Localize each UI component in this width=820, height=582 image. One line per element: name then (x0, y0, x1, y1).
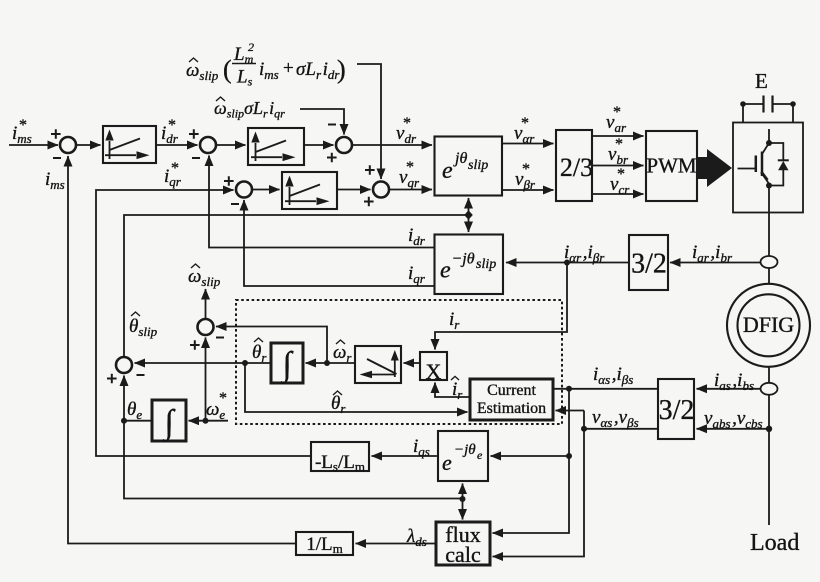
svg-text:*: * (171, 160, 179, 177)
svg-text:e: e (440, 258, 451, 284)
svg-text:DFIG: DFIG (743, 312, 794, 337)
svg-text:(: ( (223, 55, 232, 84)
svg-text:PWM: PWM (646, 154, 697, 178)
svg-text:*: * (613, 104, 621, 121)
svg-text:−jθ: −jθ (454, 442, 476, 458)
svg-text:e: e (477, 448, 483, 462)
svg-text:): ) (337, 55, 346, 84)
svg-text:*: * (219, 390, 227, 407)
svg-text:E: E (755, 69, 768, 93)
svg-text:calc: calc (445, 542, 481, 567)
svg-text:*: * (617, 166, 625, 183)
svg-text:*: * (403, 115, 411, 132)
svg-text:*: * (615, 136, 623, 153)
svg-text:slip: slip (476, 257, 496, 272)
svg-text:e: e (442, 450, 452, 475)
svg-text:3/2: 3/2 (659, 395, 695, 426)
svg-text:*: * (168, 117, 176, 134)
svg-text:2/3: 2/3 (560, 153, 593, 182)
svg-text:3/2: 3/2 (631, 249, 667, 280)
svg-text:*: * (19, 117, 27, 134)
svg-text:*: * (522, 161, 530, 178)
svg-text:*: * (521, 115, 529, 132)
svg-text:e: e (442, 158, 453, 184)
svg-text:X: X (426, 359, 442, 384)
svg-text:+: + (283, 58, 294, 79)
svg-text:Current: Current (487, 382, 536, 399)
svg-text:−jθ: −jθ (452, 251, 475, 268)
svg-text:Estimation: Estimation (477, 400, 546, 417)
svg-text:Load: Load (750, 530, 799, 556)
svg-text:*: * (406, 159, 414, 176)
svg-text:jθ: jθ (453, 150, 467, 167)
svg-text:slip: slip (468, 158, 488, 173)
svg-text:2: 2 (248, 40, 254, 54)
